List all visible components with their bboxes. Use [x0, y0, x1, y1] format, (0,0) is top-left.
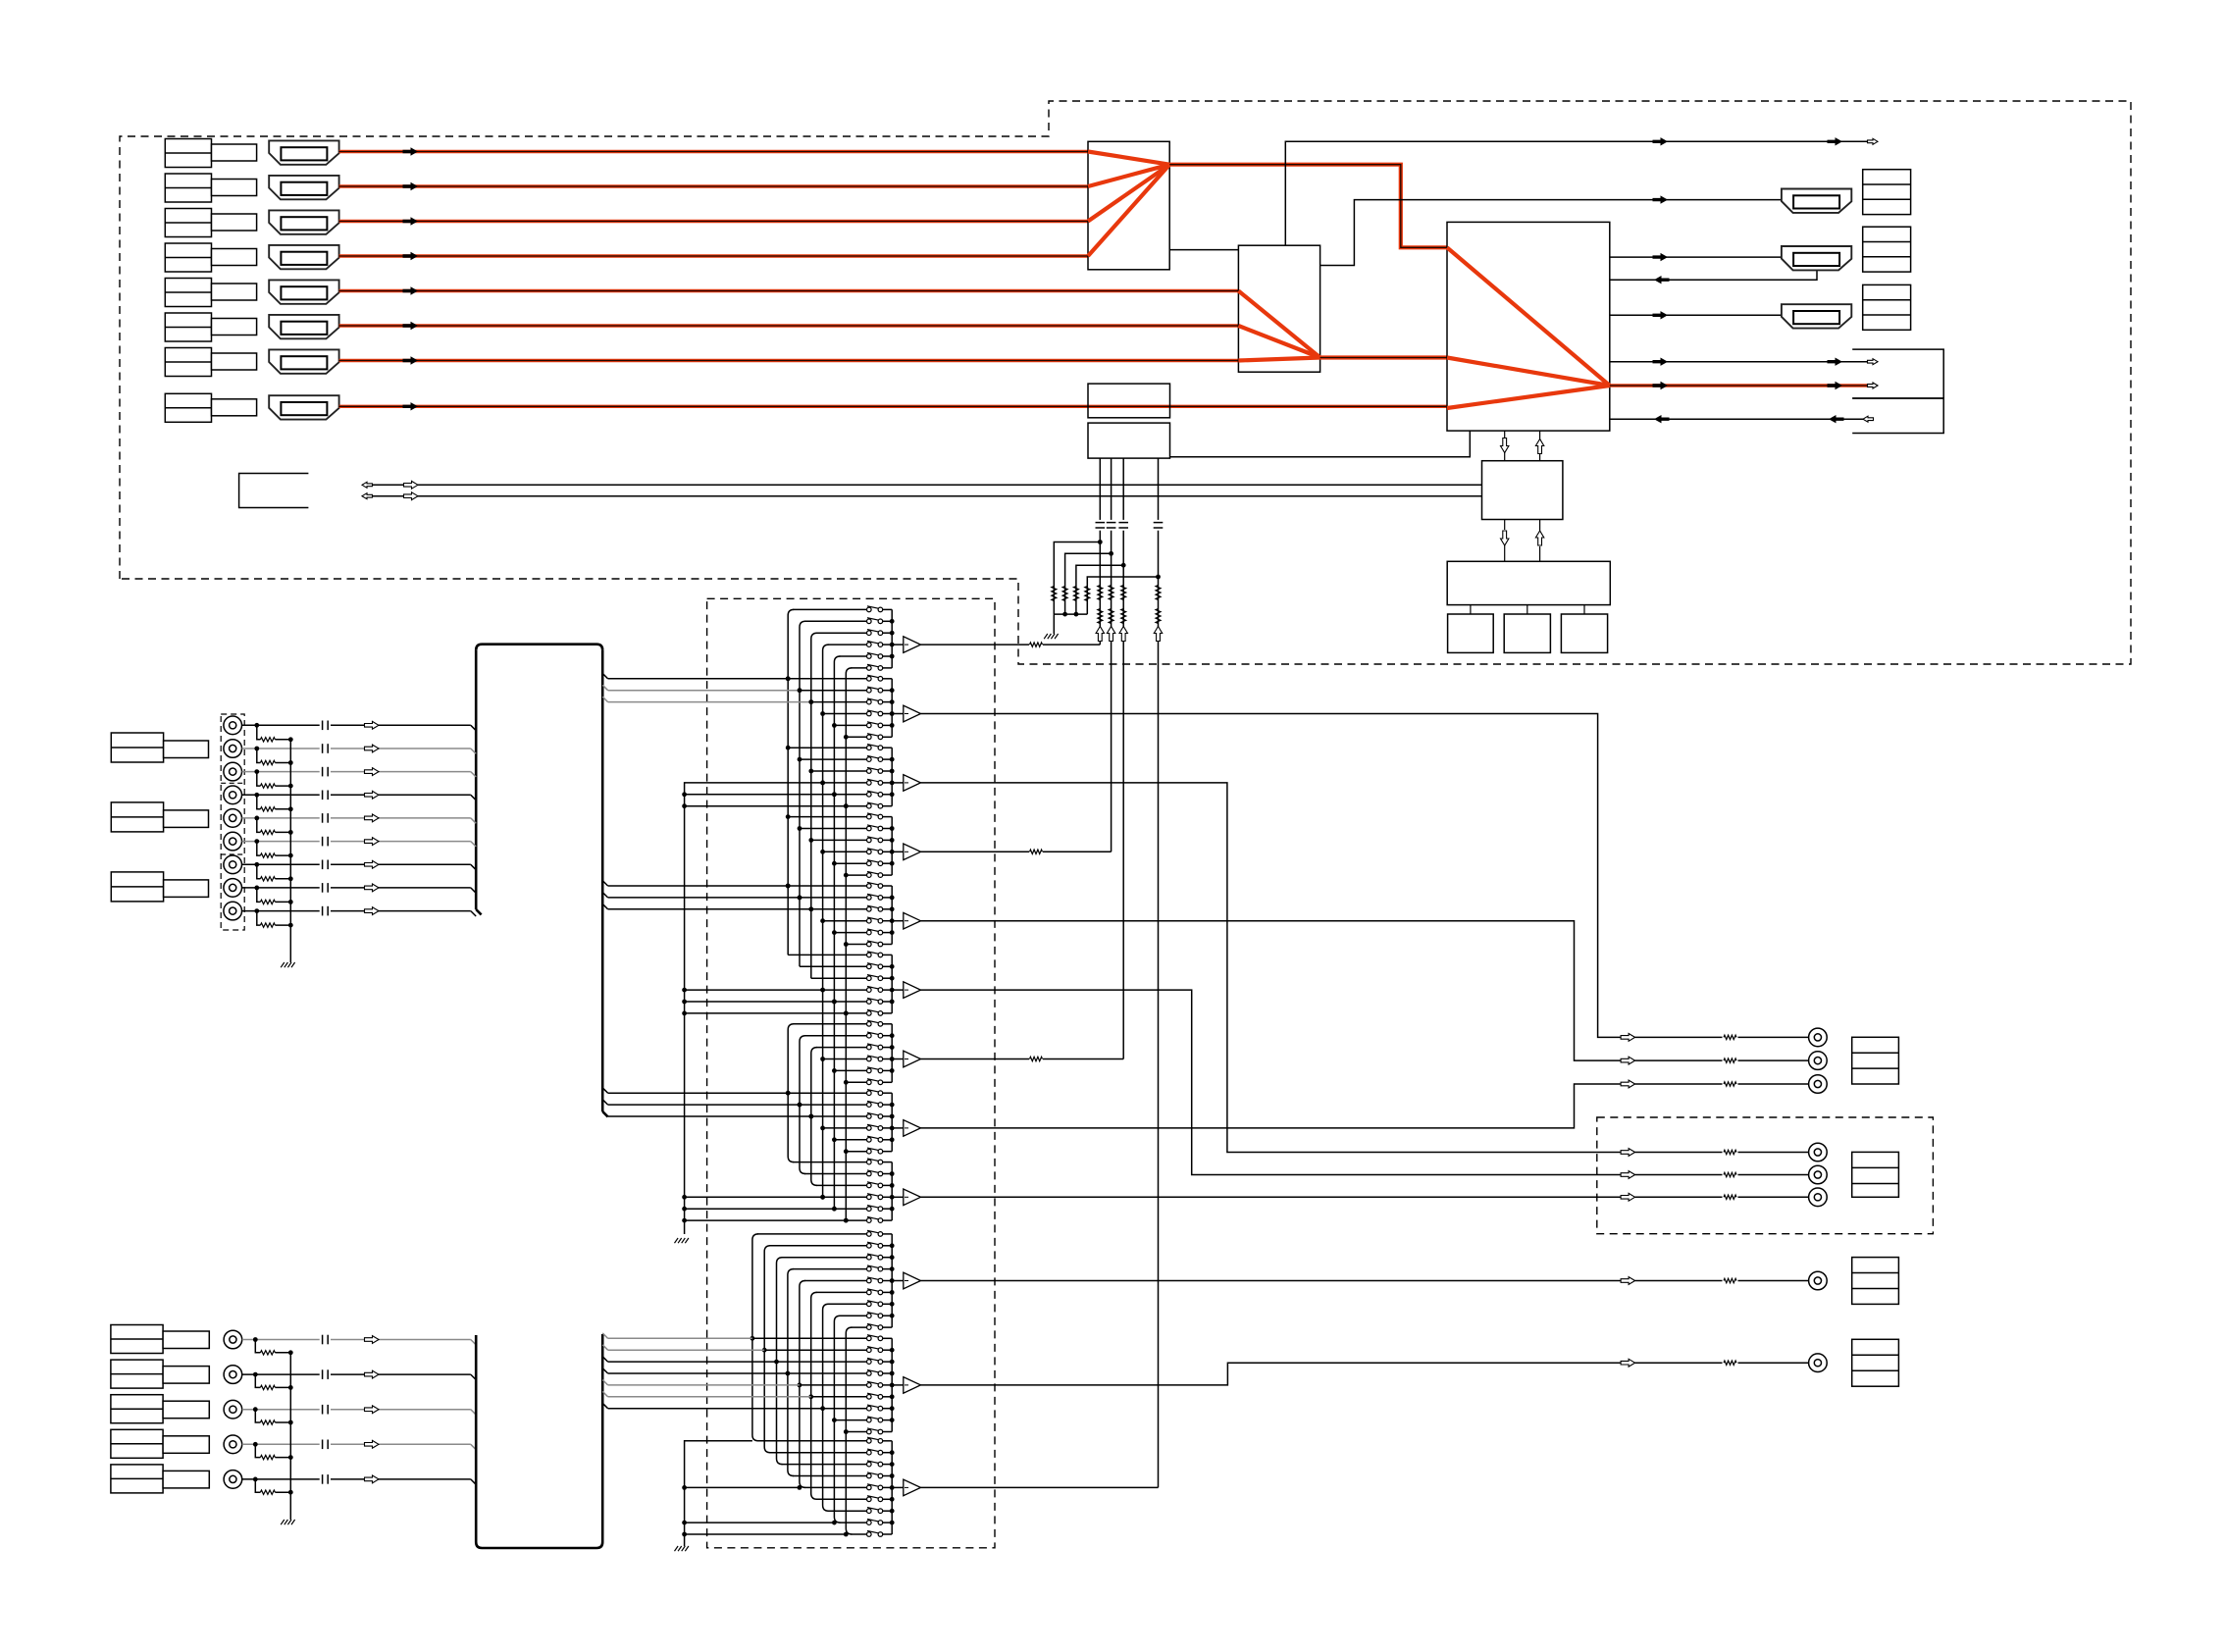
switch S26 [867, 735, 872, 740]
switch S73 row wire [816, 1047, 867, 1049]
HDMI input connector CN7 [269, 349, 338, 373]
switch S15 [867, 654, 872, 659]
matrix2 columns [752, 1234, 758, 1441]
HDMI input 4 arrow [403, 252, 419, 260]
coupling capacitor CJ1 [322, 721, 324, 731]
switch S62 [867, 964, 872, 969]
matrix2 common rail [685, 1441, 752, 1546]
bus exit wires to matrix rows 1-3 (bank8) [602, 1088, 607, 1093]
switch S93 row wire [816, 1184, 867, 1186]
HDMI input connector CN1 [269, 140, 338, 164]
analog input jack K4 [224, 1435, 242, 1454]
branch wire 4 [1087, 577, 1158, 614]
jack K4 arrow [365, 1440, 380, 1448]
common rail tap wire [685, 794, 835, 796]
switch S73 [867, 1045, 872, 1050]
system controller box [1447, 561, 1610, 604]
coupling capacitor CJ4 [322, 791, 324, 800]
analog input 4 label box [111, 1429, 163, 1458]
switch S94 [867, 1195, 872, 1200]
HDMI output connector 3 [1782, 304, 1851, 328]
jack J8 arrow [365, 884, 380, 892]
HDMI switch U2 input fan [1238, 291, 1319, 358]
rec out R [1621, 1359, 1635, 1367]
branch wire 1 [1054, 542, 1100, 615]
analog input 1 label box [111, 1325, 163, 1354]
jack J5 arrow [365, 814, 380, 822]
HDMI main output terminal arrow [1868, 383, 1879, 388]
common rail tap wire [685, 1012, 847, 1014]
switch S42 row wire [800, 828, 867, 830]
T7 output wire to HDMI board [921, 1058, 1030, 1060]
HDMI input 4 label box [165, 243, 211, 272]
jack J3 signal wire [242, 771, 320, 773]
analog input jack J7 [224, 855, 242, 874]
analog input 3 label box [111, 1395, 163, 1423]
front R RCA jack [1809, 1052, 1828, 1070]
switch T16 [867, 1290, 872, 1295]
switch S34 row wire [823, 782, 867, 784]
bank 12 output bus [891, 1441, 893, 1534]
jack K3 arrow [365, 1406, 380, 1414]
common rail tap wire [685, 1219, 847, 1221]
5V arrow 1 [1096, 627, 1104, 642]
buffer amp A7 [892, 1058, 904, 1060]
switch S84 [867, 1126, 872, 1131]
termination resistor RJ9 [257, 911, 261, 926]
zone2 output label box [1852, 1152, 1899, 1197]
HDMI input connector CN4 [269, 245, 338, 269]
switch T34 row wire [793, 1475, 867, 1477]
series resistor RC4 [1156, 609, 1161, 624]
rec out L [1621, 1277, 1635, 1285]
switch S71 row wire [793, 1023, 866, 1025]
switch S22 row wire [800, 690, 867, 692]
switch T13 row wire [782, 1257, 867, 1259]
switch S84 row wire [823, 1127, 867, 1129]
switch S96 row wire [846, 1219, 866, 1221]
switch S12 row wire [804, 620, 867, 622]
switch S81 [867, 1091, 872, 1096]
common rail ground [675, 1238, 679, 1243]
HDMI input 8 TMDS wire [339, 405, 1447, 408]
switch T25 [867, 1383, 872, 1388]
bus exit wires to matrix rows 1-3 (bank2) [602, 673, 607, 678]
HDMI input connector CN5 [269, 280, 338, 303]
rec out R RCA jack [1809, 1354, 1828, 1372]
switch S62 row wire [800, 965, 867, 967]
jack J9 signal wire [242, 910, 320, 912]
series resistor RB1 [1098, 586, 1103, 600]
buffer amp A3 [892, 782, 904, 784]
output line 1 terminal arrow [1868, 138, 1879, 144]
HDMI output 1 label box [1863, 170, 1911, 215]
DDC bus wire A [372, 484, 1482, 486]
5V arrow 2 [1107, 627, 1114, 642]
switch T23 [867, 1360, 872, 1365]
termination resistor RK5 [255, 1479, 260, 1492]
coupling capacitor CK4 [322, 1440, 324, 1450]
switch S61 row wire [788, 954, 866, 955]
switch S45 [867, 861, 872, 866]
switch S31 row wire [788, 747, 866, 749]
wire U2 to HDMI out 1 [1320, 200, 1782, 266]
switch T32 row wire [769, 1452, 866, 1454]
coupling capacitor CJ8 [322, 883, 324, 893]
analog input jack J8 [224, 879, 242, 898]
termination resistor RJ6 [257, 842, 261, 856]
capacitor C2 [1107, 522, 1116, 524]
CPU open box [239, 474, 309, 508]
lower jack ground bus [289, 1353, 291, 1520]
switch T21 [867, 1336, 872, 1341]
bank 6 output bus [891, 955, 893, 1013]
jack J1 signal wire [242, 724, 320, 726]
buffer amp A2 [892, 713, 904, 715]
jack K3 signal wire [242, 1409, 320, 1411]
switch S61 [867, 953, 872, 957]
analog input jack K5 [224, 1471, 242, 1489]
HDMI input 1 arrow [403, 147, 419, 155]
termination resistor RJ5 [257, 818, 261, 833]
lower jacks ground [281, 1520, 285, 1524]
common rail tap wire [685, 1533, 847, 1535]
bank 2 output bus [891, 679, 893, 738]
HDMI input 1 TMDS wire [339, 150, 1088, 153]
5V arrow 3 [1119, 627, 1127, 642]
HDMI input 8 arrow [403, 402, 419, 410]
switch T11 row wire [757, 1233, 867, 1235]
common rail tap wire [685, 1001, 835, 1003]
switch T12 [867, 1244, 872, 1249]
switch T27 [867, 1406, 872, 1411]
HDMI input connector CN6 [269, 315, 338, 338]
switch S53 row wire [811, 908, 867, 910]
jack K1 signal wire [242, 1339, 320, 1341]
bank 7 output bus [891, 1024, 893, 1083]
HDMI input 5 TMDS wire [339, 289, 1239, 292]
jack J5 signal wire [242, 817, 320, 819]
zone2 L RCA jack [1809, 1143, 1828, 1162]
analog input jack J2 [224, 740, 242, 758]
memory box 1 [1448, 614, 1494, 652]
common rail tap wire [685, 1486, 800, 1488]
switch S44 row wire [823, 851, 867, 852]
matrix column v1-v3 upper segment [788, 609, 794, 955]
zone2 L output [1621, 1149, 1635, 1157]
B3 output wire to HDMI board [921, 1486, 1159, 1488]
buffer amp A8 [892, 1127, 904, 1129]
zone2 sub RCA jack [1809, 1188, 1828, 1207]
switch T17 row wire [828, 1303, 867, 1305]
switch T22 [867, 1348, 872, 1353]
jack K2 arrow [365, 1370, 380, 1378]
switch S76 [867, 1080, 872, 1085]
coupling capacitor CJ3 [322, 767, 324, 777]
analog input jack J6 [224, 832, 242, 851]
switch S93 [867, 1183, 872, 1188]
switch S45 row wire [834, 862, 866, 864]
switch S15 row wire [839, 655, 866, 657]
switch S91 [867, 1160, 872, 1164]
bus exit wires to matrix rows 1-3 (bank5) [602, 881, 607, 886]
wire U3 to HDMI out 3 [1610, 314, 1782, 316]
switch T19 row wire [851, 1326, 866, 1328]
switch S63 row wire [811, 977, 867, 979]
jack J8 signal wire [242, 887, 320, 889]
memory box 2 [1504, 614, 1550, 652]
upper jack ground bus [289, 740, 291, 962]
bank 1 output bus [891, 609, 893, 668]
HDMI input 3 arrow [403, 217, 419, 225]
jack K1 arrow [365, 1336, 380, 1344]
switch S66 row wire [846, 1012, 866, 1014]
termination resistor RK2 [255, 1374, 260, 1387]
common rail tap wire [685, 1208, 835, 1210]
switch T37 row wire [828, 1510, 867, 1512]
switch S12 [867, 619, 872, 624]
HDMI input 2 label box [165, 174, 211, 202]
zone2 R RCA jack [1809, 1165, 1828, 1184]
TV bracket box lower [1852, 398, 1943, 434]
capacitor C3 [1118, 522, 1128, 524]
switch T35 [867, 1485, 872, 1490]
rec out R label box [1852, 1339, 1899, 1386]
B2 output wire [921, 1363, 1622, 1385]
jack J6 arrow [365, 838, 380, 846]
jack K4 signal wire [242, 1443, 320, 1445]
switch T36 row wire [816, 1498, 867, 1500]
switch S51 row wire [788, 885, 866, 887]
switch S46 row wire [846, 874, 866, 876]
jack K5 signal wire [242, 1478, 320, 1480]
HDMI input 6 label box [165, 313, 211, 341]
HDMI input 4 TMDS wire [339, 254, 1088, 257]
matrix common rail [685, 783, 823, 1234]
switch S25 [867, 723, 872, 728]
switch T14 [867, 1266, 872, 1271]
rec out L label box [1852, 1258, 1899, 1305]
coupling capacitor CJ2 [322, 744, 324, 753]
switch S31 [867, 746, 872, 750]
switch T37 [867, 1509, 872, 1514]
switch T23 row wire [777, 1361, 867, 1363]
buffer amp A9 [892, 1196, 904, 1198]
switch T35 row wire [804, 1486, 867, 1488]
DDC line 1 vertical wire [1099, 458, 1101, 520]
termination resistor RK1 [255, 1340, 260, 1353]
HDMI input connector CN2 [269, 176, 338, 199]
switch S85 row wire [834, 1139, 866, 1141]
switch T11 [867, 1232, 872, 1237]
switch S85 [867, 1138, 872, 1143]
DDC line 2 vertical wire [1111, 458, 1112, 520]
switch S13 [867, 631, 872, 636]
coupling capacitor CJ7 [322, 860, 324, 870]
switch S35 [867, 793, 872, 798]
HDMI input 7 arrow [403, 356, 419, 364]
bank 3 output bus [891, 748, 893, 806]
series resistor RC1 [1098, 609, 1103, 624]
switch S92 row wire [804, 1173, 867, 1175]
switch T38 row wire [839, 1522, 866, 1523]
switch S74 [867, 1057, 872, 1061]
HDMI switch box U1 [1088, 141, 1169, 269]
switch S71 [867, 1022, 872, 1027]
switch T39 [867, 1532, 872, 1537]
U1 output TMDS wire [1169, 165, 1447, 248]
input bus left edge [475, 650, 478, 909]
switch S75 [867, 1068, 872, 1073]
switch S54 [867, 918, 872, 923]
switch S95 [867, 1207, 872, 1212]
switch S51 [867, 884, 872, 889]
subwoofer output [1621, 1080, 1635, 1088]
series resistor RC2 [1109, 609, 1113, 624]
switch T22 row wire [764, 1349, 866, 1351]
coupling capacitor CK1 [322, 1335, 324, 1345]
input bus top [475, 648, 478, 651]
front R output [1621, 1057, 1635, 1064]
switch S41 row wire [788, 816, 866, 818]
buffer amp B1 [892, 1280, 904, 1282]
DDC line 3 vertical wire [1122, 458, 1124, 520]
front L RCA jack [1809, 1028, 1828, 1047]
switch S44 [867, 850, 872, 854]
audio switch IC dashed outline [707, 598, 995, 1548]
switch T14 row wire [793, 1268, 867, 1270]
switch S26 row wire [846, 736, 866, 738]
switch T21 row wire [752, 1337, 867, 1339]
HDMI input 2 TMDS wire [339, 184, 1088, 187]
switch S32 [867, 757, 872, 762]
HDMI board dashed outline [120, 101, 2131, 664]
switch T18 row wire [839, 1315, 866, 1316]
wire DDC switch to U3 [1170, 431, 1471, 457]
switch S76 row wire [846, 1081, 866, 1083]
switch S64 row wire [823, 989, 867, 991]
switch S52 [867, 896, 872, 901]
analog input group 2 label box [111, 802, 163, 832]
jack J1 arrow [365, 721, 380, 729]
switch T24 row wire [788, 1372, 867, 1374]
switch S13 row wire [816, 632, 867, 634]
switch S75 row wire [834, 1069, 866, 1071]
switch S55 row wire [834, 932, 866, 934]
switch T26 [867, 1395, 872, 1400]
HDMI input 7 label box [165, 348, 211, 377]
HDMI out 2 return wire [1610, 269, 1817, 280]
HDMI input 5 label box [165, 279, 211, 307]
bank 5 output bus [891, 886, 893, 945]
HDMI output 2 label box [1863, 227, 1911, 272]
switch T26 row wire [811, 1396, 867, 1398]
branch join wire [1054, 613, 1087, 615]
switch S81 row wire [788, 1092, 866, 1094]
switch S72 row wire [804, 1035, 867, 1037]
common rail tap wire [685, 805, 847, 807]
subwoofer RCA jack [1809, 1075, 1828, 1094]
input bus right edge [601, 650, 604, 1111]
series resistor RB3 [1121, 586, 1126, 600]
T3 output wire [921, 783, 1622, 1153]
T8 output wire [921, 1084, 1622, 1128]
memory box 3 [1561, 614, 1607, 652]
matrix column v4-v6 [823, 645, 829, 1197]
analog input 2 label box [111, 1360, 163, 1388]
switch S21 [867, 677, 872, 682]
jack J9 arrow [365, 907, 380, 915]
branch wire 2 [1065, 553, 1112, 614]
TV bracket box upper [1852, 349, 1943, 398]
jack K2 signal wire [242, 1373, 320, 1375]
switch S36 row wire [846, 805, 866, 807]
switch S24 [867, 711, 872, 716]
input bus 2 right edge [601, 1334, 604, 1542]
input bus 2 bottom [476, 1542, 602, 1548]
switch S83 row wire [811, 1115, 867, 1117]
bank 10 output bus [891, 1234, 893, 1327]
analog input jack K3 [224, 1400, 242, 1419]
termination resistor RJ1 [257, 725, 261, 740]
analog input jack J4 [224, 786, 242, 804]
HDMI output connector 2 [1782, 246, 1851, 270]
capacitor C4 [1154, 522, 1164, 524]
switch S41 [867, 814, 872, 819]
coupling capacitor CK5 [322, 1474, 324, 1484]
DDC switch box [1088, 423, 1170, 458]
switch S35 row wire [834, 794, 866, 796]
analog input jack J1 [224, 716, 242, 735]
DDC line 4 vertical wire [1158, 458, 1160, 520]
wire U2 to output line 1 [1285, 141, 1869, 245]
switch S16 row wire [851, 667, 866, 669]
switch S52 row wire [800, 897, 867, 899]
switch T15 row wire [804, 1280, 867, 1282]
switch S94 row wire [823, 1196, 867, 1198]
switch S42 [867, 826, 872, 831]
analog input jack J3 [224, 762, 242, 781]
T5 output wire [921, 921, 1622, 1060]
jack J6 signal wire [242, 841, 320, 843]
analog input 5 label box [111, 1465, 163, 1493]
switch S82 row wire [800, 1104, 867, 1106]
switch T18 [867, 1314, 872, 1318]
switch S25 row wire [834, 724, 866, 726]
HDMI input connector CN8 [269, 395, 338, 419]
switch S23 row wire [811, 701, 867, 703]
switch S14 row wire [828, 644, 867, 645]
front L output [1621, 1034, 1635, 1042]
HDMI switch box U2 [1238, 245, 1319, 372]
switch S92 [867, 1171, 872, 1176]
HDMI input 7 TMDS wire [339, 359, 1239, 362]
switch S72 [867, 1033, 872, 1038]
switch S21 row wire [788, 678, 866, 680]
switch S56 [867, 942, 872, 947]
switch S43 [867, 838, 872, 843]
HDMI input 6 arrow [403, 322, 419, 330]
switch S16 [867, 666, 872, 671]
switch S34 [867, 781, 872, 786]
switch S63 [867, 976, 872, 981]
switch T16 row wire [816, 1291, 867, 1293]
termination resistor RJ3 [257, 772, 261, 787]
termination resistor RK4 [255, 1444, 260, 1457]
jack K5 arrow [365, 1475, 380, 1483]
5V arrow 4 [1154, 627, 1162, 642]
termination resistor RJ4 [257, 795, 261, 809]
